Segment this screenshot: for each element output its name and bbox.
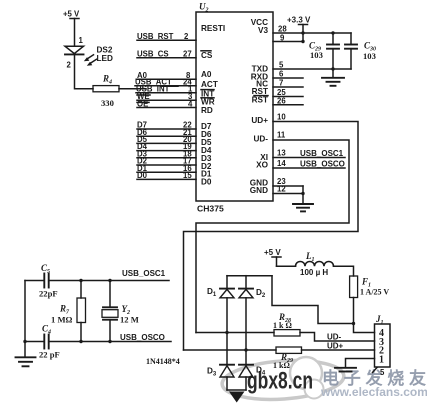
wire diode top rail [227, 275, 272, 277]
ground (decoupling caps) [322, 69, 344, 86]
svg-text:100 µ H: 100 µ H [300, 268, 328, 277]
wire XI pin 13 / net USB_OSC1 [273, 149, 345, 159]
wire D3 pin 18 [137, 149, 196, 158]
ground (crystal) [16, 357, 36, 366]
wire TXD pin 5 rail [273, 61, 351, 71]
wire RST pin 26 [273, 97, 303, 106]
wire D0 pin 15 [137, 171, 196, 180]
wire R28 to J1 pin3 / net UD- [300, 333, 375, 342]
svg-text:UD+: UD+ [327, 342, 344, 351]
svg-text:1N4148*4: 1N4148*4 [146, 357, 180, 366]
svg-text:USB_OSCO: USB_OSCO [300, 160, 345, 169]
resistor R4 330 [93, 74, 119, 109]
diode D1 [207, 276, 234, 298]
svg-text:CS: CS [201, 51, 213, 60]
svg-text:RD: RD [201, 106, 213, 115]
wire GND pin 12 [273, 185, 305, 204]
svg-text:D0: D0 [201, 177, 212, 186]
diode D4 [239, 365, 266, 390]
wire crystal top rail / net USB_OSC1 [49, 269, 169, 282]
svg-text:330: 330 [101, 98, 114, 108]
capacitor C5 22pF [25, 263, 58, 299]
wire D6 pin 21 [137, 128, 196, 137]
wire D1 pin 16 [137, 164, 196, 173]
svg-text:A0: A0 [201, 70, 212, 79]
wire L1 to F1 [334, 266, 354, 276]
svg-text:1 A/25 V: 1 A/25 V [360, 288, 389, 297]
watermark logo blob [290, 357, 324, 399]
power +5V (USB supply) [264, 248, 296, 266]
wire GND pin 23 [273, 177, 303, 186]
svg-text:5: 5 [380, 368, 385, 377]
svg-text:GND: GND [250, 186, 268, 195]
svg-text:28: 28 [278, 25, 287, 34]
svg-text:6: 6 [279, 70, 284, 79]
resistor R29 1 kOhm [184, 347, 302, 370]
wire J1 pin1 to ground [346, 359, 375, 368]
IC U2 right pin names [250, 18, 269, 195]
svg-text:14: 14 [277, 159, 286, 168]
wire R29 to J1 pin2 / net UD+ [302, 342, 375, 351]
wire USB_INT pin 1 [136, 85, 196, 94]
svg-text:12: 12 [277, 185, 286, 194]
ground (diodes) [227, 390, 246, 403]
fuse F1 1A/25V [350, 276, 390, 298]
svg-text:7: 7 [279, 79, 283, 88]
svg-text:RST: RST [252, 96, 268, 105]
ground (chip GND pins) [293, 204, 313, 211]
ground (J1 pin1) [335, 368, 356, 372]
svg-text:+5 V: +5 V [264, 248, 281, 257]
svg-text:1: 1 [379, 355, 384, 366]
svg-text:USB_OSCO: USB_OSCO [120, 333, 165, 342]
J1 pin 5 stub [373, 368, 386, 378]
crystal Y2 12M [102, 281, 139, 342]
connector J1 [375, 314, 391, 367]
IC U2 CH375 body [196, 2, 273, 214]
wire D7 pin 22 [137, 121, 196, 130]
svg-text:1 k Ω: 1 k Ω [273, 321, 292, 330]
svg-text:103: 103 [310, 50, 323, 60]
wire USB_CS pin 27 [137, 50, 196, 59]
resistor R7 1 MOhm [51, 281, 86, 342]
resistor R28 1 kOhm [196, 312, 300, 336]
wire D5 pin 20 [137, 135, 196, 144]
wire UD+ pin 10 (long route) [184, 113, 359, 351]
diode D2 [239, 276, 266, 299]
svg-text:UD-: UD- [327, 333, 342, 342]
wire D2 pin 17 [137, 157, 196, 166]
wire crystal bottom rail / net USB_OSCO [49, 333, 171, 343]
wire USB_ACT pin 24 [135, 78, 196, 87]
svg-text:2: 2 [67, 61, 72, 70]
svg-text:1: 1 [79, 36, 84, 45]
capacitor C29 103 [309, 33, 339, 69]
wire D4 pin 19 [137, 142, 196, 151]
power +5V (LED branch) [63, 10, 80, 19]
wire NC pin 7 [273, 79, 303, 88]
svg-text:22 pF: 22 pF [39, 350, 60, 360]
wire D1 to D3 vertical (UD- clamp column) [225, 298, 228, 365]
svg-text:22pF: 22pF [39, 289, 58, 299]
wire D2 to D4 vertical (UD+ clamp column) [244, 298, 247, 365]
wire VCC pin 28 [273, 25, 351, 35]
svg-text:13: 13 [277, 149, 286, 158]
wire USB_RST pin 2 [137, 32, 196, 41]
svg-text:V3: V3 [258, 26, 268, 35]
svg-text:www.elecfans.com: www.elecfans.com [320, 385, 427, 399]
LED DS2 [65, 36, 113, 70]
svg-text:1 MΩ: 1 MΩ [51, 315, 73, 325]
svg-text:USB_OSC1: USB_OSC1 [300, 149, 344, 158]
IC U2 left pin names [201, 24, 225, 186]
wire WE pin 3 [137, 92, 196, 101]
svg-text:5: 5 [279, 61, 284, 70]
svg-text:USB_OSC1: USB_OSC1 [122, 269, 166, 278]
inductor L1 100uH [296, 251, 334, 277]
svg-text:10: 10 [277, 113, 286, 122]
wire left vertical (caps common) [23, 281, 26, 358]
wire V3 pin 9 [273, 34, 305, 44]
svg-text:+3.3 V: +3.3 V [287, 16, 311, 25]
svg-text:RESTI: RESTI [201, 24, 225, 33]
wire R4 to USB_INT row [119, 88, 146, 90]
wire XO pin 14 / net USB_OSCO [273, 159, 345, 169]
svg-text:LED: LED [97, 54, 113, 63]
wire UD- pin 11 (long route) [196, 131, 349, 333]
svg-text:UD-: UD- [253, 135, 268, 144]
diode D3 [207, 365, 234, 390]
wire +5V to LED [74, 19, 76, 47]
svg-text:ACT: ACT [201, 80, 218, 89]
svg-text:12 M: 12 M [120, 315, 139, 325]
wire A0 pin 8 [137, 71, 196, 80]
svg-text:11: 11 [277, 131, 286, 140]
wire RXD pin 6 [273, 70, 303, 79]
capacitor C30 103 [345, 33, 376, 69]
wire OE pin 4 [137, 99, 196, 108]
wire F1 to J1 pin4 (VBUS node) [352, 298, 375, 333]
watermark swoosh ellipse [221, 357, 345, 403]
svg-text:103: 103 [363, 51, 376, 61]
power +3.3V [287, 16, 311, 42]
svg-text:CH375: CH375 [197, 204, 224, 214]
wire LED to R4 [75, 54, 94, 88]
wire VBUS to diode rail (staircase) [272, 276, 354, 324]
svg-text:+5 V: +5 V [63, 10, 80, 19]
svg-text:1 kΩ: 1 kΩ [273, 361, 290, 370]
wire RST pin 25 [273, 88, 303, 97]
svg-text:XO: XO [256, 161, 268, 170]
capacitor C4 22 pF [25, 324, 60, 360]
svg-text:UD+: UD+ [251, 116, 268, 125]
